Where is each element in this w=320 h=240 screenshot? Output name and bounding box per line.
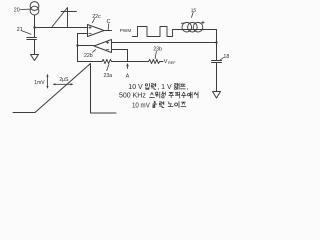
svg-text:22b: 22b <box>84 53 93 59</box>
svg-text:21: 21 <box>17 27 23 33</box>
current source 20 (two overlapping circles) <box>30 2 39 15</box>
label 15 <box>191 7 197 17</box>
ground (left) <box>31 55 39 61</box>
resistor 23b <box>149 59 160 63</box>
output node wire down <box>216 30 218 61</box>
svg-text:15: 15 <box>191 7 197 13</box>
inductor wire under loops <box>182 29 217 31</box>
svg-text:, 1 V: , 1 V <box>157 84 172 91</box>
korean caption line 2 <box>119 92 198 100</box>
capacitor 18 plates <box>212 61 222 63</box>
22b inverting input wire to divider node <box>112 50 128 62</box>
svg-text:1mV: 1mV <box>34 80 45 86</box>
plus sign right of inductor <box>202 21 205 24</box>
glyph peu <box>180 84 185 89</box>
big ramp waveform <box>13 64 116 114</box>
glyph jeu <box>181 102 186 106</box>
vertical net wire <box>77 34 79 62</box>
glyph ching <box>162 92 166 98</box>
comparator output wire <box>104 30 112 32</box>
wire between resistors <box>112 61 149 63</box>
label 22c <box>92 14 101 23</box>
minus sign left of inductor <box>181 22 184 24</box>
wire cap to ground <box>34 40 36 55</box>
svg-text:18: 18 <box>223 54 229 60</box>
label VREF <box>164 59 176 65</box>
svg-text:A: A <box>126 73 130 79</box>
error amp output wire <box>78 45 95 47</box>
resistor net wire left <box>78 61 103 63</box>
glyph su <box>181 92 186 98</box>
svg-text:23b: 23b <box>153 46 162 52</box>
label 23b <box>153 46 162 58</box>
glyph wi <box>155 92 160 98</box>
wire cap to ground <box>216 63 218 92</box>
korean caption line 1 <box>128 83 188 91</box>
svg-text:500 KHz: 500 KHz <box>119 93 146 100</box>
svg-text:10 mV: 10 mV <box>132 102 150 109</box>
small ramp waveform <box>52 8 77 28</box>
junction dot at error amp output <box>76 44 78 46</box>
glyph raem <box>175 83 180 89</box>
svg-text:2µS: 2µS <box>59 77 69 83</box>
glyph ju <box>169 92 174 97</box>
glyph ip <box>145 84 149 90</box>
error amp U22b (points left) <box>94 40 112 53</box>
svg-text:REF: REF <box>168 61 176 65</box>
glyph seo <box>194 92 198 98</box>
PWM square wave <box>133 27 182 37</box>
label 18 <box>220 54 230 61</box>
label 22b <box>84 50 96 60</box>
2uS marker <box>53 77 74 86</box>
glyph pa <box>175 92 179 98</box>
glyph e <box>187 92 192 98</box>
1mV marker <box>34 74 48 89</box>
svg-text:23a: 23a <box>104 73 113 79</box>
feedback wire to output node <box>112 42 217 44</box>
glyph ryeok2 <box>159 102 164 108</box>
svg-text:22c: 22c <box>92 14 101 20</box>
label C with leader <box>107 19 111 30</box>
wire node to comparator input <box>35 27 88 29</box>
label 23a <box>104 64 113 78</box>
junction dot feedback <box>215 41 217 43</box>
wire source down to node <box>34 15 36 28</box>
ground (right) <box>213 92 221 99</box>
capacitor 21 plates <box>27 38 37 40</box>
glyph seu <box>150 92 155 97</box>
node A arrow <box>126 63 130 79</box>
comparator lower input wire <box>78 33 88 35</box>
wire to VREF <box>160 61 163 63</box>
korean caption line 3 <box>132 102 186 110</box>
node junction dot <box>33 26 35 28</box>
svg-text:PWM: PWM <box>120 28 132 33</box>
label 21 <box>17 27 31 35</box>
svg-text:,: , <box>186 84 188 91</box>
glyph ryeok <box>151 83 156 89</box>
svg-text:10 V: 10 V <box>128 84 143 91</box>
svg-text:20: 20 <box>14 7 20 13</box>
label 20 <box>14 7 30 13</box>
resistor 23a <box>102 59 112 63</box>
glyph chul <box>153 102 157 108</box>
capacitor C21 top wire <box>34 28 36 38</box>
glyph no <box>168 102 173 107</box>
glyph i <box>175 102 179 108</box>
comparator U22c <box>88 25 105 37</box>
inductor 15 (three loops) <box>182 22 203 32</box>
